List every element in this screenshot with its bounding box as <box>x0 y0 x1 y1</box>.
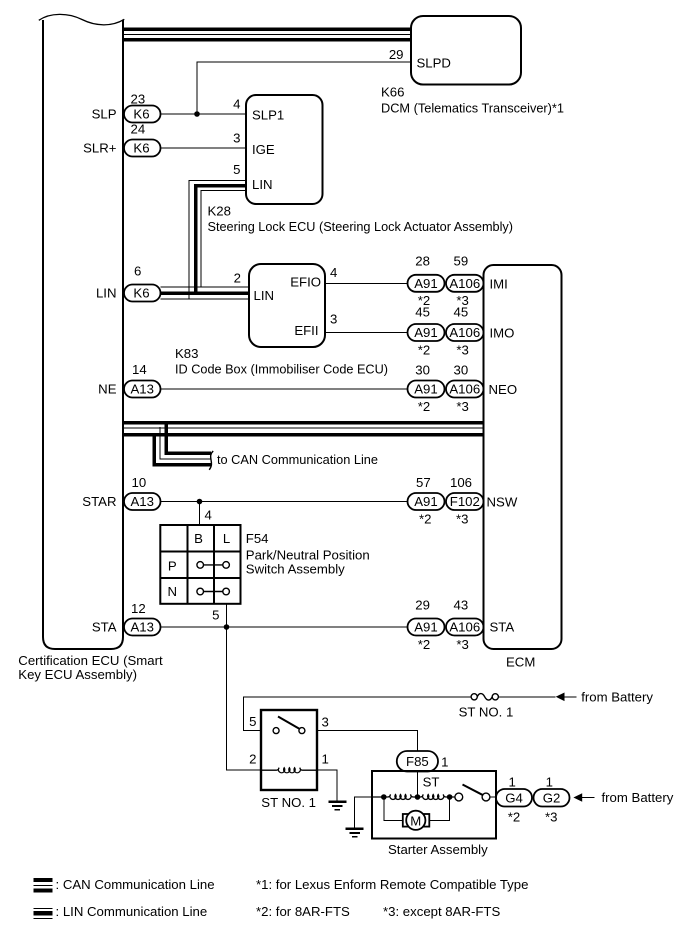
wire starter to ground <box>355 797 372 829</box>
connector G4 <box>496 789 532 807</box>
svg-text:ID Code Box (Immobiliser Code: ID Code Box (Immobiliser Code ECU) <box>175 362 388 377</box>
connector K6 pin6 <box>124 285 161 302</box>
wire SLP to SLP1 <box>161 113 247 115</box>
svg-text:59: 59 <box>454 254 469 269</box>
svg-text:Key ECU Assembly): Key ECU Assembly) <box>18 667 137 682</box>
svg-text:*3: *3 <box>456 399 468 414</box>
relay box ST NO.1 <box>261 710 317 790</box>
motor M circle <box>406 811 425 830</box>
contact N row <box>197 588 230 595</box>
contact P row <box>197 562 230 569</box>
svg-text:106: 106 <box>450 475 472 490</box>
svg-text:28: 28 <box>415 254 430 269</box>
svg-text:M: M <box>410 813 421 828</box>
motor brush rect <box>403 814 430 827</box>
svg-text:Park/Neutral Position: Park/Neutral Position <box>246 548 370 563</box>
svg-text:A106: A106 <box>449 325 480 340</box>
svg-text:1: 1 <box>322 752 329 767</box>
wire PN switch L down <box>226 604 228 771</box>
connector A91 (NSW) <box>408 493 445 510</box>
arrow from Battery (bottom) <box>573 793 582 802</box>
wire STAR to A91 <box>161 501 408 503</box>
svg-text:SLP1: SLP1 <box>252 108 284 123</box>
svg-text:LIN: LIN <box>254 288 275 303</box>
wire F85 down <box>417 771 419 797</box>
ground (relay) <box>328 802 346 810</box>
fuse ST NO.1 <box>471 694 498 700</box>
svg-text:DCM (Telematics Transceiver)*1: DCM (Telematics Transceiver)*1 <box>381 101 564 116</box>
wire relay pin1 to ground <box>317 770 337 801</box>
svg-text:45: 45 <box>415 305 430 320</box>
relay coil <box>261 768 317 773</box>
svg-text:*3: *3 <box>545 810 557 825</box>
svg-text:LIN: LIN <box>252 177 273 192</box>
svg-text:K6: K6 <box>133 107 149 122</box>
node junction starter left <box>381 794 387 800</box>
svg-text:from Battery: from Battery <box>602 790 674 805</box>
CAN bus 2 (thick-thin-thick) <box>123 423 484 435</box>
wire starter main with coil 1 and coil 2 <box>372 795 455 800</box>
CAN branch down (thick-thin-thick) <box>154 421 211 465</box>
svg-text:*1: for Lexus Enform Remote Co: *1: for Lexus Enform Remote Compatible T… <box>256 877 528 892</box>
svg-text:A91: A91 <box>414 325 437 340</box>
connector A106 (NEO) <box>446 381 484 398</box>
svg-text:A106: A106 <box>449 620 480 635</box>
connector A91 (STA) <box>408 619 445 636</box>
svg-text:*2: for 8AR-FTS: *2: for 8AR-FTS <box>256 904 350 919</box>
wire EFIO to A91 <box>325 282 408 284</box>
wire SLR+ to IGE <box>161 147 247 149</box>
Park/Neutral switch table F54 <box>160 525 240 604</box>
wire NE to A91 <box>161 388 408 390</box>
wire relay pin2 from STA <box>227 627 262 770</box>
svg-text:3: 3 <box>330 312 337 327</box>
svg-text:*3: *3 <box>456 343 468 358</box>
svg-text:5: 5 <box>233 162 240 177</box>
svg-text:A91: A91 <box>414 382 437 397</box>
svg-text:SLR+: SLR+ <box>83 141 117 156</box>
svg-text:12: 12 <box>131 601 146 616</box>
svg-text:23: 23 <box>131 92 146 107</box>
connector K6 pin23 <box>124 106 161 123</box>
node junction starter right <box>447 794 453 800</box>
connector A106 (IMI) <box>446 275 484 292</box>
node junction SLP/SLPD <box>194 111 200 117</box>
svg-text:ST NO. 1: ST NO. 1 <box>261 795 316 810</box>
svg-text:K6: K6 <box>133 286 149 301</box>
svg-text:P: P <box>168 559 177 574</box>
svg-text:: CAN Communication Line: : CAN Communication Line <box>56 877 215 892</box>
CAN bus top (thick-thin-thick) <box>123 29 411 40</box>
svg-text:STA: STA <box>490 620 515 635</box>
svg-text:57: 57 <box>416 475 431 490</box>
svg-text:ST NO. 1: ST NO. 1 <box>459 705 514 720</box>
starter assembly box <box>372 771 496 839</box>
Certification ECU box (left, torn top) <box>39 14 125 649</box>
svg-text:4: 4 <box>205 508 212 523</box>
svg-text:IMO: IMO <box>490 326 515 341</box>
svg-text:A13: A13 <box>130 494 153 509</box>
svg-text:N: N <box>168 584 178 599</box>
svg-text:*3: except 8AR-FTS: *3: except 8AR-FTS <box>383 904 500 919</box>
svg-text:6: 6 <box>134 264 141 279</box>
starter motor branch right <box>429 797 449 820</box>
svg-text:1: 1 <box>546 775 553 790</box>
svg-text:*3: *3 <box>456 637 468 652</box>
connector A91 (NEO) <box>408 381 445 398</box>
node junction STA <box>224 624 230 630</box>
svg-text:EFII: EFII <box>294 323 318 338</box>
starter motor branch left <box>384 797 403 820</box>
svg-text:F102: F102 <box>450 494 480 509</box>
break mark (continuation squiggle) <box>209 451 213 470</box>
svg-text:A13: A13 <box>130 620 153 635</box>
svg-text:*2: *2 <box>419 512 431 527</box>
svg-text:from Battery: from Battery <box>581 689 653 704</box>
ID Code Box K83 <box>249 264 325 347</box>
arrow from Battery (top) <box>556 693 565 702</box>
svg-text:Switch Assembly: Switch Assembly <box>246 562 345 577</box>
connector A13 pin14 <box>124 381 161 398</box>
svg-text:Certification ECU (Smart: Certification ECU (Smart <box>18 653 163 668</box>
svg-text:A91: A91 <box>414 620 437 635</box>
svg-text:24: 24 <box>131 122 146 137</box>
LIN bus main (thin-thick-thin) <box>161 287 250 299</box>
svg-text:ECM: ECM <box>506 655 535 670</box>
connector A91 (IMO) <box>408 324 445 341</box>
svg-text:K66: K66 <box>381 85 404 100</box>
svg-text:5: 5 <box>212 608 219 623</box>
svg-text:A13: A13 <box>130 382 153 397</box>
node junction starter F85 <box>415 794 421 800</box>
svg-text:14: 14 <box>132 362 147 377</box>
ground (starter) <box>346 829 364 837</box>
svg-text:IMI: IMI <box>490 277 508 292</box>
LIN bus branch to K28 pin5 (thin-thick-thin) <box>189 181 246 300</box>
svg-text:*3: *3 <box>456 512 468 527</box>
svg-text:EFIO: EFIO <box>290 275 321 290</box>
connector F102 (NSW) <box>446 493 484 510</box>
wire relay pin3 to F85 <box>317 731 418 751</box>
svg-text:4: 4 <box>233 97 240 112</box>
connector A106 (IMO) <box>446 324 484 341</box>
svg-text:G4: G4 <box>505 791 523 806</box>
svg-text:STAR: STAR <box>82 494 116 509</box>
svg-text:SLPD: SLPD <box>417 56 451 71</box>
svg-text:30: 30 <box>454 362 469 377</box>
wire EFII to A91 <box>325 332 408 334</box>
svg-text:*2: *2 <box>418 399 430 414</box>
svg-text:to CAN Communication Line: to CAN Communication Line <box>217 452 378 467</box>
svg-text:10: 10 <box>132 475 147 490</box>
svg-text:IGE: IGE <box>252 142 275 157</box>
connector K6 pin24 <box>124 140 161 157</box>
svg-text:5: 5 <box>249 714 256 729</box>
svg-text:LIN: LIN <box>96 286 117 301</box>
starter switch blade <box>463 785 484 796</box>
svg-text:K83: K83 <box>175 346 198 361</box>
legend CAN icon <box>34 880 53 890</box>
wire to PN switch <box>199 502 201 526</box>
svg-text:3: 3 <box>233 131 240 146</box>
svg-text:Starter Assembly: Starter Assembly <box>388 842 488 857</box>
svg-text:L: L <box>223 531 230 546</box>
svg-text:: LIN Communication Line: : LIN Communication Line <box>56 904 208 919</box>
starter switch contacts <box>455 793 490 801</box>
svg-text:*2: *2 <box>418 637 430 652</box>
node junction STAR/B <box>197 499 203 505</box>
svg-text:1: 1 <box>509 775 516 790</box>
svg-text:STA: STA <box>92 620 117 635</box>
svg-text:K6: K6 <box>133 141 149 156</box>
pin 29 SLPD wire <box>197 62 411 114</box>
wire relay pin5 to fuse <box>244 697 472 731</box>
Steering Lock ECU box K28 <box>246 95 323 204</box>
svg-text:A91: A91 <box>414 276 437 291</box>
svg-text:SLP: SLP <box>92 107 117 122</box>
wire fuse to arrow <box>498 696 555 698</box>
svg-text:A106: A106 <box>449 382 480 397</box>
svg-text:NE: NE <box>98 382 117 397</box>
svg-text:F85: F85 <box>406 754 429 769</box>
wire STA to A91 <box>161 626 408 628</box>
svg-text:A91: A91 <box>414 494 437 509</box>
svg-text:A106: A106 <box>449 276 480 291</box>
svg-text:G2: G2 <box>543 791 561 806</box>
svg-text:*2: *2 <box>508 810 520 825</box>
svg-text:30: 30 <box>415 362 430 377</box>
svg-text:Steering Lock ECU (Steering Lo: Steering Lock ECU (Steering Lock Actuato… <box>208 219 514 234</box>
svg-text:1: 1 <box>441 755 448 770</box>
svg-text:ST: ST <box>423 775 440 790</box>
connector A13 pin10 <box>124 493 161 510</box>
svg-text:*2: *2 <box>418 343 430 358</box>
svg-text:B: B <box>194 531 203 546</box>
connector A91 (IMI) <box>408 275 445 292</box>
ECM box <box>484 265 562 649</box>
svg-text:29: 29 <box>389 47 404 62</box>
svg-text:29: 29 <box>415 598 430 613</box>
svg-text:K28: K28 <box>208 204 231 219</box>
relay switch blade <box>278 717 299 729</box>
relay switch contacts <box>273 728 305 734</box>
svg-text:45: 45 <box>454 305 469 320</box>
DCM box K66 <box>411 16 521 85</box>
connector G2 <box>534 789 570 807</box>
connector A13 pin12 <box>124 619 161 636</box>
svg-text:43: 43 <box>454 598 469 613</box>
svg-text:2: 2 <box>249 752 256 767</box>
svg-text:4: 4 <box>330 265 337 280</box>
legend LIN icon <box>34 908 53 918</box>
connector A106 (STA) <box>446 619 484 636</box>
wire switch to box edge <box>490 796 496 798</box>
svg-text:F54: F54 <box>246 531 269 546</box>
svg-text:NEO: NEO <box>489 382 518 397</box>
svg-text:NSW: NSW <box>487 495 518 510</box>
svg-text:3: 3 <box>322 715 329 730</box>
svg-text:2: 2 <box>234 271 241 286</box>
connector F85 <box>397 751 438 772</box>
